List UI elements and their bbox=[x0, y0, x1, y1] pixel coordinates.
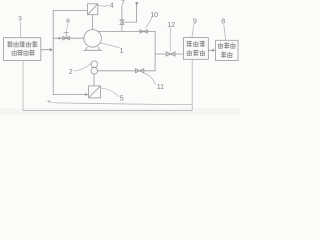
box 9 text line2 监测仪 bbox=[187, 50, 206, 56]
leader for label 5 bbox=[101, 88, 119, 97]
valve V6 bbox=[63, 33, 70, 40]
monitor box 9 bbox=[184, 38, 209, 60]
wire: faint bottom scan shade bbox=[0, 108, 240, 115]
leader for label 11 bbox=[144, 73, 155, 84]
wire: branch to monitor box 9 bbox=[155, 53, 183, 55]
leader for label 3 bbox=[20, 22, 22, 38]
arrow into pipe bbox=[50, 48, 53, 52]
wire: top pipe to filter 4 bbox=[53, 9, 87, 11]
wire: pump 2 down to filter 5 bbox=[93, 74, 95, 86]
svg-text:6: 6 bbox=[66, 18, 70, 25]
wire: suction line from pipe to compressor bbox=[53, 37, 84, 39]
valve V12 bbox=[166, 52, 175, 56]
svg-text:4: 4 bbox=[110, 3, 114, 10]
wire: signal loop from box 3 to box 9 bbox=[23, 61, 192, 111]
leader for label 4 bbox=[98, 4, 108, 7]
box 3 text line1 压缩机场站 bbox=[7, 41, 37, 47]
leader for label 10 bbox=[146, 18, 152, 29]
wire: recycle line from pump 2 bbox=[98, 70, 156, 72]
compressor base bbox=[84, 47, 102, 50]
control center box 3 bbox=[4, 38, 41, 61]
valve V11 bbox=[135, 69, 143, 73]
valve V7 (vertical) bbox=[120, 20, 124, 25]
wire: discharge line from compressor bbox=[97, 30, 155, 32]
box 8 text line1 客户用 bbox=[218, 43, 236, 49]
wire: gas return loop from box 9 bbox=[48, 59, 192, 104]
arrow into box 8 bbox=[212, 49, 215, 52]
svg-text:1: 1 bbox=[120, 48, 124, 55]
filter F1 (square 4) bbox=[88, 4, 98, 15]
leader for label 2 bbox=[74, 63, 91, 71]
leader for label 8 bbox=[224, 25, 226, 41]
customer box 8 bbox=[216, 40, 239, 60]
wire: box 9 to box 8 bbox=[208, 49, 212, 51]
compressor C (circle 1) bbox=[84, 30, 102, 48]
box 8 text line2 气端 bbox=[221, 52, 232, 58]
arrow on suction line bbox=[59, 37, 62, 40]
svg-text:2: 2 bbox=[69, 69, 73, 76]
wire: filter 4 down to compressor bbox=[92, 15, 94, 30]
valve V10 bbox=[140, 30, 148, 33]
pump P2 (double circle) bbox=[91, 61, 98, 74]
wire: vent branch up to valve 7 bbox=[121, 25, 123, 32]
arrow into filter 5 bbox=[85, 93, 88, 96]
svg-text:10: 10 bbox=[150, 12, 158, 19]
leader for label 1 bbox=[100, 43, 119, 48]
filter F2 (square 5) bbox=[89, 86, 101, 98]
leader for label 6 bbox=[66, 24, 67, 32]
vent outlet dot bbox=[135, 2, 138, 5]
svg-text:8: 8 bbox=[221, 19, 225, 26]
leader for label 12 bbox=[169, 28, 171, 51]
wire: vent jog to outlet bbox=[122, 4, 137, 22]
svg-text:12: 12 bbox=[167, 22, 175, 29]
wire: line above valve 7 bbox=[121, 6, 123, 20]
svg-text:9: 9 bbox=[193, 18, 197, 25]
box 9 text line1 供气量 bbox=[187, 41, 205, 47]
box 3 text line2 控制中心 bbox=[12, 50, 35, 56]
wire: left vertical suction pipe bbox=[52, 10, 54, 94]
wire: right vertical pipe bbox=[154, 31, 156, 70]
svg-text:11: 11 bbox=[157, 84, 164, 91]
svg-text:7: 7 bbox=[121, 0, 125, 7]
leader for label 9 bbox=[192, 25, 194, 38]
wire: control signal from box 3 to suction pipe bbox=[41, 49, 50, 51]
wire: bottom pipe from suction pipe to filter 5 bbox=[53, 94, 88, 96]
arrowhead on return loop bbox=[47, 100, 50, 103]
svg-text:3: 3 bbox=[18, 16, 22, 23]
svg-text:5: 5 bbox=[120, 96, 124, 103]
